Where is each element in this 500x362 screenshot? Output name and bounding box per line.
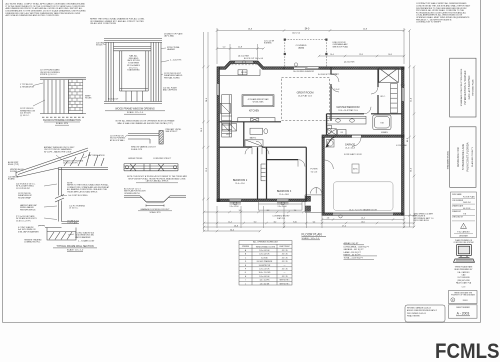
svg-text:ON ALL HDR CONDITIONS: ON ALL HDR CONDITIONS [90,22,117,25]
detail C: typical frame wall section [16,148,108,240]
svg-text:8-0 SGD TRANSOM: 8-0 SGD TRANSOM [257,260,273,263]
svg-text:@ 16 O.C.: @ 16 O.C. [20,115,30,117]
svg-text:2-8 x 4-0 S.H.: 2-8 x 4-0 S.H. [259,276,270,278]
svg-text:.35 / .35: .35 / .35 [281,261,287,263]
svg-text:21-4 x 22-8: 21-4 x 22-8 [345,148,355,150]
svg-text:BEEN PREPARED BY: BEEN PREPARED BY [454,268,473,271]
svg-text:E: E [245,265,247,267]
svg-text:10-4: 10-4 [330,54,334,56]
warning triangle [461,223,467,228]
svg-text:STRIPS @ 16 O.C.: STRIPS @ 16 O.C. [40,74,58,76]
laundry W/D [222,124,237,132]
svg-text:REVISED PLAN: REVISED PLAN [472,79,475,95]
svg-text:@ 16 O.C.: @ 16 O.C. [69,208,78,210]
svg-text:20-8: 20-8 [363,29,367,31]
svg-text:LAYOUT AND ALL SPECS: LAYOUT AND ALL SPECS [146,180,169,183]
svg-text:MASTER BEDROOM: MASTER BEDROOM [337,106,360,109]
svg-text:PER MFR SPECS: PER MFR SPECS [20,209,36,211]
svg-text:SCALE : 1/4 = 1-0: SCALE : 1/4 = 1-0 [302,237,320,240]
svg-text:NOOK: NOOK [241,72,248,74]
svg-text:2 - 2x4 (TYP): 2 - 2x4 (TYP) [170,60,182,62]
svg-text:---: --- [284,272,286,274]
svg-text:HOLES: HOLES [85,98,92,100]
svg-text:PROPERTY OF THE DESIGNER: PROPERTY OF THE DESIGNER [451,294,476,296]
svg-text:W/ CLIPS - NAILED PER CODE: W/ CLIPS - NAILED PER CODE [44,150,72,153]
svg-text:D: D [245,261,247,263]
svg-text:.35 / .35: .35 / .35 [281,257,287,259]
island double rect [242,95,274,107]
svg-text:9-4 CLG: 9-4 CLG [311,171,318,173]
svg-text:16-0 x 7-0 OHD: 16-0 x 7-0 OHD [259,272,272,274]
svg-text:CONTRACTOR TO VERIFY: CONTRACTOR TO VERIFY [416,21,442,24]
exterior wall: top with bay [217,61,404,215]
svg-text:STANDARD CONSTRUCTION DWGS: STANDARD CONSTRUCTION DWGS [460,68,463,106]
svg-text:2-8 x 6-8 DR: 2-8 x 6-8 DR [260,283,270,285]
svg-text:2 - #5 BARS CONT: 2 - #5 BARS CONT [78,240,95,243]
linen shelves [391,84,398,114]
svg-text:HEADER: HEADER [167,48,176,51]
bed3 closet shelves [261,164,266,181]
sliding door to lanai [294,67,319,69]
svg-text:J: J [245,283,246,285]
master toilet [327,126,332,129]
svg-text:RESIDENCE FOR:: RESIDENCE FOR: [457,147,460,168]
svg-text:6-4: 6-4 [313,221,316,223]
svg-text:FCMLS: FCMLS [435,340,500,362]
sheet number box [449,305,478,318]
svg-text:SCALE: NTS: SCALE: NTS [56,122,69,125]
svg-text:COMPACTED FILL: COMPACTED FILL [24,241,40,244]
svg-text:FLOOR PLAN: FLOOR PLAN [302,232,323,236]
fridge [220,103,230,113]
svg-text:TUB: TUB [380,122,384,124]
svg-text:STANDARD MODEL: STANDARD MODEL [446,150,449,169]
svg-text:DWG NAME: DWG NAME [452,193,462,196]
svg-text:.35 / .35: .35 / .35 [281,276,287,278]
svg-text:DESIGNER: DESIGNER [459,235,469,237]
svg-text:M.BATH: M.BATH [381,131,388,134]
svg-text:THESE DWGS ARE THE: THESE DWGS ARE THE [454,291,472,294]
detail D1: corner/jamb detail [128,131,163,145]
entry walk [259,202,303,211]
kitchen counters [220,69,276,137]
svg-text:LAP & NAIL: LAP & NAIL [164,35,174,38]
svg-text:6-0 SGD: 6-0 SGD [261,257,268,259]
svg-text:FINAL REVIEW: FINAL REVIEW [407,315,420,318]
svg-text:(2) 2x12: (2) 2x12 [334,89,340,91]
svg-text:SEE NOTE 1: SEE NOTE 1 [280,280,290,282]
svg-text:H: H [245,276,247,278]
svg-text:ANY SCALED DIMENSIONS AND NOTE: ANY SCALED DIMENSIONS AND NOTED CONDITIO… [6,14,60,17]
svg-text:BLOCK OUT 10-4 x 4-6: BLOCK OUT 10-4 x 4-6 [244,58,263,60]
master tub [373,115,391,130]
svg-text:11-4 x 11-0: 11-4 x 11-0 [235,183,244,185]
svg-text:PALM COAST, FLORIDA: PALM COAST, FLORIDA [466,142,470,171]
svg-text:SCALE: NTS: SCALE: NTS [131,148,143,151]
svg-text:(2) 2x12 HDR: (2) 2x12 HDR [344,62,355,64]
svg-text:54-0: 54-0 [230,229,234,231]
svg-text:ATTIC: ATTIC [353,168,358,171]
svg-text:GIRDER TRUSS: GIRDER TRUSS [128,158,143,160]
WIC shelving X [379,68,399,83]
detail B: wood frame window opening [104,39,162,104]
svg-text:F. A. CARUSO: F. A. CARUSO [457,230,470,233]
exterior wall: left [217,67,220,202]
garage door opening [333,213,393,215]
svg-text:21-4: 21-4 [361,218,365,220]
svg-text:1/2 GYP BD INT: 1/2 GYP BD INT [16,188,31,190]
master shower [327,129,337,135]
svg-text:C: C [245,257,247,259]
svg-text:.35 / .35: .35 / .35 [281,250,287,252]
svg-text:8-2: 8-2 [267,210,270,212]
svg-text:W.I.C.: W.I.C. [380,96,386,98]
svg-text:CAD: CAD [462,273,467,276]
svg-text:TRUSS MFR LAYOUT AND SPECS: TRUSS MFR LAYOUT AND SPECS [67,190,98,193]
svg-text:16-0 x 7-0 O.H. GARAGE DOOR: 16-0 x 7-0 O.H. GARAGE DOOR [349,208,377,211]
svg-text:SOFFIT: SOFFIT [10,171,18,173]
svg-text:46-8: 46-8 [407,138,409,142]
great room tray ceiling dashed [282,78,330,121]
svg-text:PALM COAST FLA: PALM COAST FLA [456,281,472,284]
svg-text:TOP PLATE: TOP PLATE [67,222,78,225]
svg-text:8-0 SGD W/ TRANSOM: 8-0 SGD W/ TRANSOM [318,73,338,76]
svg-text:COVERED: COVERED [296,45,307,47]
windows bottom wall [230,199,242,201]
door arcs [245,74,378,169]
attic access [352,164,359,173]
svg-text:2003-114: 2003-114 [463,202,470,204]
svg-text:T M: T M [463,213,467,215]
window tags [234,61,405,219]
svg-text:CHECKED BY: CHECKED BY [452,217,464,219]
svg-text:REVISED GARAGE 04-18-03: REVISED GARAGE 04-18-03 [407,306,431,309]
svg-text:36-0: 36-0 [410,168,412,172]
svg-text:SEE NOTE 1: SEE NOTE 1 [280,283,290,285]
water heater [327,140,335,148]
svg-text:2-8: 2-8 [327,218,330,220]
svg-text:3-0 ENTRY DR: 3-0 ENTRY DR [259,265,271,267]
svg-text:LIN: LIN [340,132,343,134]
svg-text:2-8 x 2-0 S.H.: 2-8 x 2-0 S.H. [259,269,270,271]
dimension lines [202,28,416,232]
garage door track outline [334,182,394,211]
svg-text:WALLS SHALL BE FRAMED AS SHOWN: WALLS SHALL BE FRAMED AS SHOWN THIS DETA… [117,122,173,125]
svg-text:3-0 x 5-0 FIX: 3-0 x 5-0 FIX [260,280,271,282]
svg-text:SCALE: 1/2 = 1-0: SCALE: 1/2 = 1-0 [67,248,84,251]
title block box 1 (rotated address) [450,58,476,117]
svg-text:42 ISLAND BRKFST BAR: 42 ISLAND BRKFST BAR [248,98,269,101]
svg-text:2-8 x 4-0 SH: 2-8 x 4-0 SH [278,206,288,208]
svg-text:BLOCKOUT/FRAME CONNECTION: BLOCKOUT/FRAME CONNECTION [43,119,81,122]
svg-text:11-0 x 10-8: 11-0 x 10-8 [279,194,288,196]
svg-text:26-8: 26-8 [234,225,238,227]
svg-text:SEE ROOF PLAN: SEE ROOF PLAN [333,45,349,48]
svg-text:14-8 x 9-4: 14-8 x 9-4 [292,33,300,35]
exterior wall: right [402,67,405,216]
svg-text:A - 2003: A - 2003 [457,312,470,316]
svg-text:36-0: 36-0 [201,128,203,132]
svg-text:SCALE: NTS: SCALE: NTS [149,211,161,214]
svg-text:FOYER: FOYER [311,169,318,171]
svg-text:BEDROOM 2: BEDROOM 2 [233,179,248,182]
svg-text:BATT INSULATION: BATT INSULATION [88,154,105,157]
svg-text:22-0: 22-0 [361,221,365,223]
svg-text:BATH 2: BATH 2 [250,137,256,140]
svg-text:LANAI - 136 SQ FT: LANAI - 136 SQ FT [344,251,362,254]
front porch columns [305,195,322,213]
svg-text:BOARD: BOARD [8,178,15,181]
svg-text:DRAWN BY: DRAWN BY [452,210,462,213]
svg-text:WINDOW AND DOORS: WINDOW AND DOORS [256,245,276,248]
svg-text:A: A [245,249,247,252]
svg-text:12-8: 12-8 [206,168,208,172]
svg-text:SCALE: 1/2 = 1-0: SCALE: 1/2 = 1-0 [127,111,144,114]
window left wall nook [217,84,219,95]
svg-text:SLOPE SLAB TO DOOR: SLOPE SLAB TO DOOR [344,153,363,156]
svg-text:!: ! [463,225,464,229]
svg-text:.35 / .35: .35 / .35 [281,269,287,271]
svg-text:TOTAL - 2,249 SQ FT: TOTAL - 2,249 SQ FT [344,256,364,259]
svg-text:2003: 2003 [463,300,469,302]
svg-text:PLANS PREPARED ON: PLANS PREPARED ON [455,239,473,242]
svg-text:VAPOR BARRIER: VAPOR BARRIER [75,236,91,239]
svg-text:OPENING: OPENING [242,246,250,248]
svg-text:CO#: CO# [462,286,466,288]
svg-text:2-8 x 4-0 S.H.: 2-8 x 4-0 S.H. [259,250,270,252]
title block info rows [451,192,477,238]
svg-text:16-0 FLAT CLG: 16-0 FLAT CLG [298,95,312,98]
wall: porch/garage side [322,137,324,213]
svg-text:WOOD FRAME WINDOW OPENING: WOOD FRAME WINDOW OPENING [115,108,155,111]
svg-text:9-8: 9-8 [239,210,242,212]
svg-text:F: F [245,269,247,271]
svg-text:2x4 CONT BLOCKING: 2x4 CONT BLOCKING [68,195,88,197]
svg-text:FLAGLER COUNTY: FLAGLER COUNTY [471,147,474,167]
exterior wall: bottom bedroom wing [217,199,306,202]
bath 2 fixtures [245,128,268,146]
svg-text:EDGE (TYP): EDGE (TYP) [8,164,19,166]
svg-text:UTIL: UTIL [226,134,230,136]
svg-text:BEDROOM 3: BEDROOM 3 [277,190,292,193]
svg-text:KITCHEN: KITCHEN [249,111,259,113]
svg-text:12-8: 12-8 [359,54,363,56]
svg-text:54-0: 54-0 [305,29,310,31]
svg-text:@ 48 O.C. (TYP): @ 48 O.C. (TYP) [16,220,31,222]
copyright box [449,291,478,304]
svg-text:STUDS: STUDS [96,45,103,47]
covered lanai [285,40,327,67]
svg-text:7-4: 7-4 [294,210,297,212]
svg-text:BLOCKOUT: BLOCKOUT [108,99,119,101]
front door double arcs [311,188,322,194]
svg-text:GARAGE DOOR BLOCKOUT: GARAGE DOOR BLOCKOUT [140,208,170,211]
svg-text:8-10: 8-10 [293,221,297,223]
svg-text:GREAT ROOM: GREAT ROOM [297,92,314,95]
interior bearing wall: garage/master [322,135,404,137]
svg-text:11-4: 11-4 [228,221,231,223]
svg-text:2-8 x 4-0 S.H.: 2-8 x 4-0 S.H. [259,254,270,256]
svg-text:STAGGERED: STAGGERED [127,69,140,72]
svg-text:FLOOR PLAN: FLOOR PLAN [463,196,475,199]
svg-text:24-6: 24-6 [206,98,208,102]
svg-text:26-8: 26-8 [248,29,252,31]
svg-text:LIVING AREA - 1,608 SQ FT: LIVING AREA - 1,608 SQ FT [344,246,370,249]
window master right wall [402,88,404,101]
title block box 2 (rotated project) [450,127,476,188]
svg-text:G: G [245,272,247,274]
garage/master door gap [352,135,361,137]
svg-text:AT BLOCK WALL: AT BLOCK WALL [110,139,125,142]
window bay kitchen [235,61,253,63]
lanai posts [284,39,286,41]
svg-text:CONN PER STRUCT: CONN PER STRUCT [153,158,172,160]
svg-text:HOUSE WRAP: HOUSE WRAP [18,196,32,199]
svg-text:SEE STRUCT: SEE STRUCT [166,131,179,133]
svg-text:INTERVENTION 3 / DUPLEX: INTERVENTION 3 / DUPLEX [463,70,467,104]
svg-text:2-8 x 4-0 SH: 2-8 x 4-0 SH [230,206,240,208]
svg-text:FLAT CLG: FLAT CLG [277,217,286,220]
svg-text:EGRESS: EGRESS [264,43,272,45]
svg-text:04-12-03: 04-12-03 [463,208,470,210]
svg-text:22-4: 22-4 [410,98,412,102]
svg-text:GAR LEFT ADOPTED: GAR LEFT ADOPTED [468,75,471,99]
svg-text:U-FACT/SHGC: U-FACT/SHGC [279,245,291,248]
svg-text:TYPICAL FRAME WALL SECTION: TYPICAL FRAME WALL SECTION [56,245,93,248]
leader arrow garage corner [326,137,335,147]
svg-text:PER OWNER 05-02-03: PER OWNER 05-02-03 [407,313,426,315]
svg-text:57 BERKSHIRE LANE: 57 BERKSHIRE LANE [461,144,465,170]
svg-text:GARAGE - 441 SQ FT: GARAGE - 441 SQ FT [344,248,365,251]
svg-text:16-0 SLIDING GLASS DR: 16-0 SLIDING GLASS DR [293,70,315,73]
svg-text:C: C [452,299,454,302]
svg-text:ALL OPENING SCHEDULE: ALL OPENING SCHEDULE [253,240,278,243]
svg-text:F.A. CARUSO: F.A. CARUSO [458,271,470,274]
svg-text:12-0 x 14-8 TRAY CLG: 12-0 x 14-8 TRAY CLG [338,109,358,112]
detail D2: header connection elevation [124,164,178,171]
exterior wall: garage front [322,213,404,216]
svg-text:@ 24 O.C. (TYP): @ 24 O.C. (TYP) [63,163,78,165]
svg-text:27-4: 27-4 [342,225,346,227]
svg-text:5-0: 5-0 [223,47,226,49]
master bath vanity [327,115,392,135]
svg-text:---: --- [284,265,286,267]
svg-text:SHEET NUMBER: SHEET NUMBER [456,307,470,309]
south counter [238,118,275,122]
svg-text:ENCLOSED BLDG: ENCLOSED BLDG [414,220,430,222]
svg-text:.35 / .35: .35 / .35 [281,254,287,256]
svg-text:PER NAIL SCHED: PER NAIL SCHED [164,76,180,79]
svg-text:AND CRIPPLES: AND CRIPPLES [163,89,178,92]
interior partition walls [220,67,403,199]
svg-text:6 MIL VAPOR BARRIER: 6 MIL VAPOR BARRIER [18,230,39,233]
svg-text:8-2: 8-2 [274,221,277,223]
svg-text:W/ DBL SINK: W/ DBL SINK [253,102,265,104]
svg-text:ADDED 3 BEDRM REVISED BATH 2: ADDED 3 BEDRM REVISED BATH 2 [407,309,437,312]
brick veneer hatch [68,80,82,114]
window/door opening schedule table [239,241,292,286]
svg-text:OPENING WIDTH: OPENING WIDTH [124,193,140,195]
svg-text:B: B [245,254,247,256]
left counter band [222,95,232,137]
computer icon [454,245,475,263]
svg-text:9-0: 9-0 [254,221,257,223]
svg-text:AREAS / SQ FT: AREAS / SQ FT [344,242,360,245]
svg-text:10-8: 10-8 [388,54,392,56]
svg-text:I: I [245,280,246,282]
revision note box [405,305,445,322]
svg-text:& TIE ANCHOR: & TIE ANCHOR [20,85,35,88]
svg-text:LANAI: LANAI [298,47,305,50]
